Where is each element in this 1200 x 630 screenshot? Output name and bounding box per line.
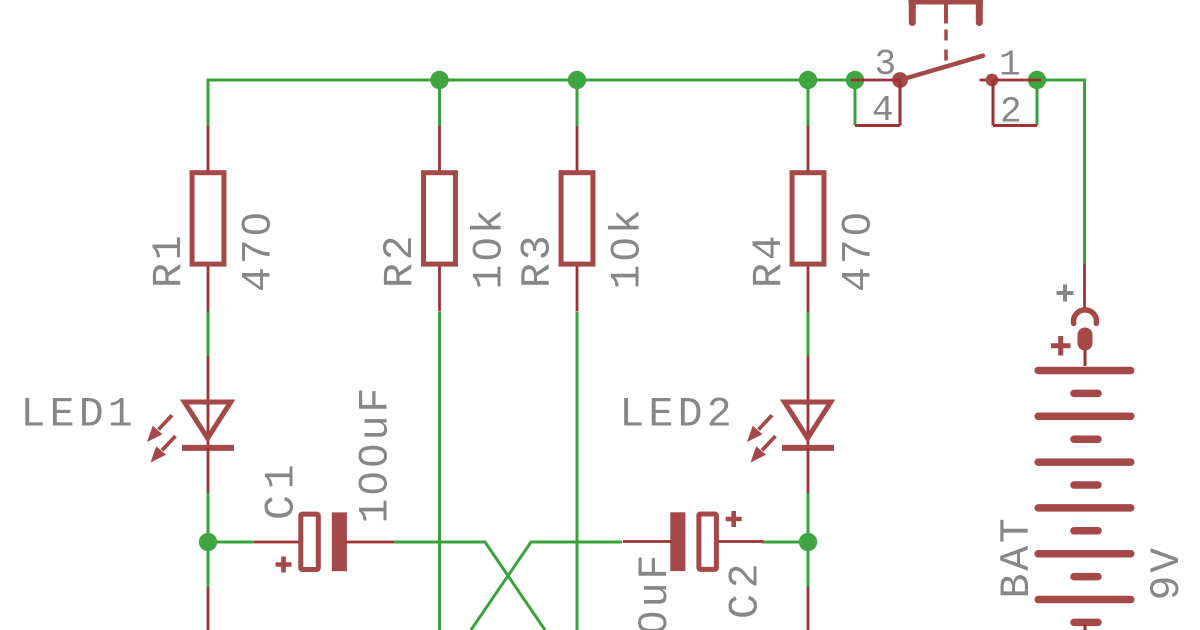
wire switch pin4 branch (854, 80, 857, 126)
switch S1 pivot (892, 72, 908, 88)
net plus mark (1057, 285, 1074, 302)
wire LED2 to node B (807, 493, 810, 542)
resistor R4 (792, 126, 824, 312)
wire node B down (807, 542, 810, 587)
wire battery branch (1037, 80, 1085, 264)
junction dot node A (199, 533, 217, 551)
svg-text:C1: C1 (259, 459, 306, 520)
switch S1 actuator bracket (909, 0, 984, 24)
resistor R2 (424, 126, 456, 312)
junction dot R4 top (799, 71, 817, 89)
capacitor C1 (254, 512, 394, 572)
svg-text:4: 4 (872, 90, 894, 131)
wire R2 bottom vertical (438, 312, 441, 630)
svg-text:9V: 9V (1144, 545, 1191, 600)
wire R4 top (807, 80, 810, 127)
switch S1 dashed link (944, 30, 948, 67)
switch S1 box pins 1-2 (993, 80, 1037, 126)
svg-text:R4: R4 (746, 233, 793, 288)
wire top bus net VCC (208, 80, 855, 127)
junction dot switch pin 3 (846, 71, 864, 89)
wire R4 to LED2 (807, 311, 810, 356)
pin stub Q2 collector below node B (807, 587, 810, 630)
pin stub Q1 collector below node A (207, 587, 210, 630)
junction dot R3 top (568, 71, 586, 89)
wire R3 bottom vertical (576, 312, 579, 630)
LED LED2 (747, 356, 834, 493)
wire C2 to node B (762, 541, 808, 544)
wire switch pin2 branch (1036, 80, 1039, 126)
switch S1 box pins 3-4 (855, 80, 900, 126)
wire node A to C1 (208, 541, 254, 544)
switch S1 lever (900, 56, 983, 80)
wire node A down (207, 542, 210, 587)
junction dot node B (799, 533, 817, 551)
wire C1 to crossing (394, 542, 545, 630)
svg-text:LED1: LED1 (21, 392, 137, 439)
battery plus mark (1051, 336, 1071, 356)
wire LED1 to node A (207, 493, 210, 542)
svg-text:LED2: LED2 (619, 392, 735, 439)
switch S1 pin 3 wire (851, 79, 900, 82)
battery BAT (1038, 264, 1131, 630)
resistor R3 (561, 126, 593, 312)
svg-text:C2: C2 (723, 558, 770, 619)
svg-text:R1: R1 (146, 233, 193, 288)
junction dot R2 top (430, 71, 448, 89)
LED LED1 (147, 356, 234, 493)
wire R2 top (438, 80, 441, 127)
wire crossing to C2 (471, 542, 622, 630)
svg-text:BAT: BAT (994, 515, 1041, 598)
wire R1 to LED1 (207, 311, 210, 356)
switch S1 pin 1 wire (993, 79, 1041, 82)
capacitor C2 (623, 511, 764, 571)
svg-text:R2: R2 (377, 233, 424, 288)
wire R3 top (576, 80, 579, 127)
svg-text:100uF: 100uF (632, 552, 679, 630)
resistor R1 (192, 126, 224, 312)
switch S1 contact pin 1 (980, 74, 999, 87)
svg-text:2: 2 (1000, 92, 1022, 133)
junction dot switch pin 2 (1028, 71, 1046, 89)
svg-text:R3: R3 (515, 233, 562, 288)
